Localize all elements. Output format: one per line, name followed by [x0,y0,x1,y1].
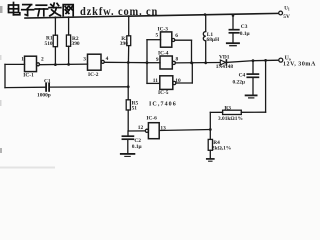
svg-text:IC-2: IC-2 [88,72,99,78]
svg-text:C4: C4 [239,72,246,78]
svg-text:390: 390 [120,41,128,47]
svg-text:2: 2 [41,57,44,63]
svg-text:C3: C3 [241,24,248,30]
svg-text:IC-6: IC-6 [146,116,157,122]
svg-text:0.22μ: 0.22μ [233,79,246,85]
svg-text:R3: R3 [224,106,231,112]
svg-text:9: 9 [156,57,159,63]
svg-text:IC-5: IC-5 [158,90,169,96]
svg-text:510: 510 [45,41,53,47]
svg-text:0.1μ: 0.1μ [132,144,142,150]
svg-text:IC-4: IC-4 [158,51,169,57]
svg-text:5V: 5V [283,14,290,20]
svg-text:1000p: 1000p [37,93,51,99]
svg-text:68μH: 68μH [207,37,220,43]
svg-text:Uo: Uo [285,55,291,61]
svg-text:C1: C1 [44,79,51,85]
svg-text:IC,7406: IC,7406 [149,102,177,108]
svg-text:11: 11 [153,78,158,84]
svg-text:12: 12 [138,125,144,131]
svg-text:5: 5 [156,33,159,39]
svg-text:6: 6 [175,33,178,39]
svg-text:IC-3: IC-3 [158,26,169,32]
svg-text:IC-1: IC-1 [23,73,34,79]
svg-text:13: 13 [160,125,166,131]
svg-text:12V, 30mA: 12V, 30mA [283,62,316,68]
svg-text:VD1: VD1 [219,54,230,60]
svg-text:10: 10 [175,78,181,84]
svg-text:U1: U1 [284,7,290,12]
svg-text:1N4148: 1N4148 [216,64,234,70]
svg-text:51: 51 [132,106,138,112]
svg-text:1: 1 [21,56,24,62]
svg-text:3: 3 [83,56,86,62]
svg-text:3.01kΩ1%: 3.01kΩ1% [218,116,243,122]
svg-text:8: 8 [176,57,179,63]
svg-text:2kΩ,1%: 2kΩ,1% [212,145,231,151]
svg-text:dzkfw. com. cn: dzkfw. com. cn [80,5,158,18]
svg-text:4: 4 [106,56,109,62]
svg-text:0.1μ: 0.1μ [240,31,250,37]
svg-text:390: 390 [72,41,80,47]
